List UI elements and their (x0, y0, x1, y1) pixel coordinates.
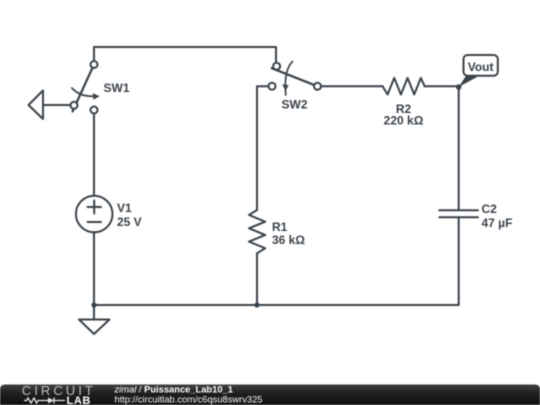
wire R2 to Vout node (425, 85, 459, 87)
resistor R1 (249, 210, 305, 253)
junction dot at R1 bottom (254, 302, 259, 307)
svg-text:Vout: Vout (468, 60, 494, 74)
wire C2 to bottom rail (458, 217, 460, 305)
svg-text:36 kΩ: 36 kΩ (272, 233, 305, 247)
svg-text:http://circuitlab.com/c6qsu8sw: http://circuitlab.com/c6qsu8swrv325 (115, 394, 263, 404)
junction dot at ground node (91, 302, 96, 307)
svg-text:C2: C2 (482, 202, 498, 216)
wire SW2 to R2 (321, 85, 383, 87)
node Vout flag (459, 55, 498, 87)
wire top rail (94, 47, 276, 63)
svg-text:220 kΩ: 220 kΩ (384, 114, 424, 128)
voltage source V1 (76, 196, 142, 233)
svg-text:25 V: 25 V (117, 215, 142, 229)
CircuitLab logo (22, 383, 96, 405)
wire Vout node down to C2 (458, 86, 460, 210)
switch SW1 (71, 61, 130, 114)
footer bar (0, 385, 540, 405)
wire R1 to bottom rail (256, 253, 258, 305)
wire SW2 left throw down to R1 (257, 86, 268, 210)
svg-text:LAB: LAB (67, 395, 91, 405)
ground (79, 305, 110, 334)
svg-text:SW2: SW2 (282, 97, 308, 111)
wire SW1 to V1 (93, 114, 95, 197)
svg-text:zimal / Puissance_Lab10_1: zimal / Puissance_Lab10_1 (114, 385, 233, 395)
capacitor C2 (439, 202, 512, 230)
svg-text:SW1: SW1 (104, 81, 130, 95)
svg-text:R1: R1 (272, 220, 288, 234)
wire V1 to bottom rail (93, 232, 95, 305)
wire input flag to SW1 (43, 104, 71, 106)
wire bottom rail (94, 304, 459, 306)
junction dot at Vout node (456, 84, 462, 90)
input terminal flag (29, 91, 44, 120)
svg-text:V1: V1 (117, 201, 132, 215)
switch SW2 (269, 62, 322, 112)
footer title text (114, 385, 263, 405)
resistor R2 (383, 78, 425, 128)
svg-text:47 µF: 47 µF (482, 216, 513, 230)
